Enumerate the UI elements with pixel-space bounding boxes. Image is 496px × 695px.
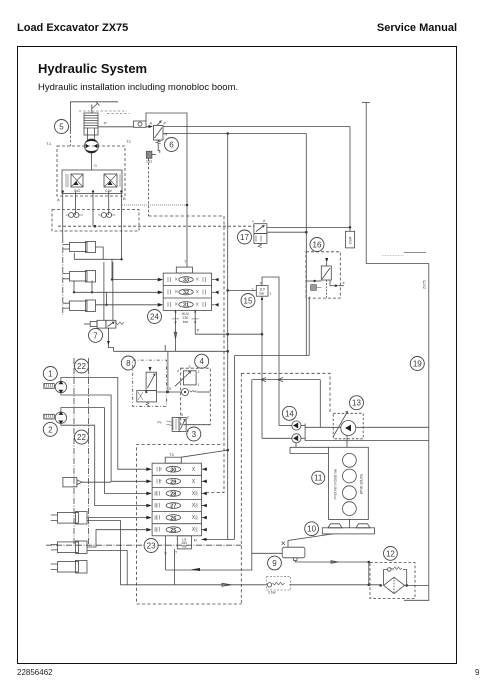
- circle 9: [268, 556, 282, 570]
- wire engine rails: [290, 443, 328, 454]
- svg-text:10: 10: [307, 525, 316, 534]
- gear pump 1: [44, 381, 67, 393]
- engine mount 10: [322, 519, 374, 533]
- pressure reducing valve 6: [149, 121, 168, 144]
- wire P T ports below block: [165, 536, 179, 585]
- circle 4: [195, 354, 209, 368]
- svg-text:300: 300: [154, 527, 158, 532]
- LS relief box: [177, 536, 197, 549]
- sections 30 to 25: [166, 466, 180, 534]
- wire right boundary feed: [362, 103, 429, 264]
- svg-text:33: 33: [183, 278, 189, 284]
- svg-text:T: T: [175, 551, 178, 555]
- svg-text:P: P: [164, 122, 167, 126]
- svg-text:13: 13: [352, 399, 361, 408]
- svg-text:19: 19: [413, 360, 422, 369]
- svg-text:B: B: [123, 196, 126, 201]
- svg-text:22: 22: [77, 433, 86, 442]
- wire tank return line: [120, 583, 380, 586]
- svg-text:300: 300: [154, 503, 158, 508]
- section 32: [168, 289, 206, 296]
- wire gallery dotted: [122, 204, 187, 206]
- svg-text:27: 27: [170, 504, 176, 510]
- swivel joint chain lines: [46, 358, 241, 545]
- HUV relief label: [172, 310, 199, 352]
- svg-text:17: 17: [240, 233, 249, 242]
- svg-text:2: 2: [48, 425, 53, 434]
- valve block 23 body: [152, 463, 201, 536]
- svg-text:1S1: 1S1: [146, 160, 152, 164]
- circle 15: [241, 294, 255, 308]
- wire valve17 top line: [267, 226, 351, 229]
- pilot gerotor pump: [85, 139, 99, 170]
- svg-text:2: 2: [198, 370, 200, 374]
- svg-text:P=63 kW n=2000 min: P=63 kW n=2000 min: [334, 468, 338, 499]
- pressure relief 4: [175, 365, 200, 387]
- block 23 section marks: [157, 467, 195, 532]
- svg-text:9: 9: [272, 559, 277, 568]
- svg-text:15: 15: [244, 297, 253, 306]
- circle 19: [410, 357, 424, 371]
- circle 10: [305, 522, 319, 536]
- svg-text:P: P: [260, 282, 263, 286]
- wire A bus: [62, 192, 64, 238]
- section 33: [168, 277, 206, 284]
- wire B drop: [121, 194, 123, 260]
- block 23 right arrows: [202, 467, 207, 531]
- circle 7: [89, 328, 103, 342]
- svg-text:bar: bar: [183, 320, 189, 324]
- circle 14: [282, 406, 296, 420]
- wire cyl feeds rows 26 25: [87, 518, 146, 547]
- filter 12: [370, 563, 429, 599]
- wire A boundary chain: [62, 237, 64, 315]
- dashed region box lower: [137, 216, 330, 604]
- circle 2: [43, 422, 57, 436]
- svg-text:300: 300: [195, 491, 199, 496]
- svg-text:T2: T2: [126, 139, 131, 144]
- wire cylinder returns to tank line: [87, 520, 127, 584]
- circle 22 upper: [75, 359, 89, 373]
- svg-text:3 bar: 3 bar: [268, 591, 277, 595]
- svg-text:INO: INO: [74, 189, 81, 193]
- circle 12: [384, 547, 398, 561]
- svg-text:T.1: T.1: [46, 141, 52, 146]
- wire valve6 P to CWF column: [163, 126, 350, 128]
- svg-text:ZX75: ZX75: [423, 280, 427, 289]
- svg-text:a: a: [343, 281, 345, 285]
- svg-text:3: 3: [181, 413, 183, 417]
- cylinder lower a: [51, 512, 87, 525]
- block 23 value labels: [154, 467, 199, 532]
- circle 11: [312, 471, 325, 484]
- CWF coupling: [346, 127, 355, 248]
- svg-text:T: T: [184, 259, 187, 264]
- wire valve17 lower line: [267, 231, 308, 234]
- svg-text:2: 2: [187, 416, 189, 420]
- solenoid valve 8: [133, 360, 167, 406]
- svg-text:T3: T3: [169, 452, 174, 457]
- circle 24: [148, 310, 162, 324]
- wire cylinder step lines: [73, 247, 123, 306]
- svg-text:+B: +B: [159, 467, 163, 471]
- svg-text:A: A: [57, 197, 60, 202]
- solenoid 1S1: [146, 143, 160, 216]
- dashed box around valve 4: [181, 368, 211, 425]
- svg-text:P: P: [197, 328, 200, 333]
- circle 13: [350, 396, 364, 410]
- svg-text:30: 30: [170, 467, 176, 473]
- variable pump 13: [333, 412, 363, 448]
- svg-text:bar: bar: [260, 291, 266, 295]
- svg-text:P: P: [104, 121, 107, 126]
- wire valve6R down column: [305, 134, 307, 282]
- svg-text:300: 300: [195, 515, 199, 520]
- svg-text:x: x: [252, 220, 254, 224]
- circle 5: [55, 120, 69, 134]
- svg-text:6: 6: [169, 141, 174, 150]
- check valve row dashed box: [52, 190, 139, 231]
- svg-text:O: O: [94, 164, 97, 168]
- wire pump1 B feed: [61, 393, 146, 482]
- wire 110bar P riser: [262, 277, 279, 426]
- svg-text:S: S: [169, 387, 172, 391]
- circle 3: [187, 427, 201, 441]
- svg-text:5: 5: [59, 123, 64, 132]
- pressure valve 110 bar: [228, 282, 272, 297]
- solenoid valve 17: [252, 219, 267, 248]
- svg-text:A: A: [150, 122, 153, 126]
- pump regulator block: [62, 170, 122, 194]
- cylinder group upper left: [63, 242, 96, 312]
- section 31: [168, 302, 206, 309]
- svg-text:CWF: CWF: [349, 236, 353, 244]
- svg-text:23: 23: [147, 542, 156, 551]
- main trunk line: [226, 134, 229, 540]
- node R line / trunk top: [226, 132, 229, 135]
- wire P line to check box: [98, 121, 150, 127]
- svg-text:+B: +B: [159, 479, 163, 483]
- node gallery: [186, 204, 189, 207]
- circle 22 lower: [75, 430, 89, 444]
- gear pump 9: [252, 378, 333, 571]
- svg-text:300: 300: [195, 503, 199, 508]
- dashed box T1 T2 pump group: [46, 139, 131, 196]
- svg-text:300: 300: [154, 491, 158, 496]
- cylinder lower b: [51, 541, 87, 554]
- block 24 right arrows: [212, 278, 219, 307]
- svg-text:A: A: [263, 219, 266, 223]
- control lever linkage: [71, 102, 130, 147]
- check valve pair 14: [262, 421, 305, 443]
- wire S line valve8 out: [157, 351, 182, 393]
- circle 23: [144, 539, 158, 553]
- solenoid valve 3: [158, 413, 190, 433]
- svg-text:11: 11: [314, 474, 323, 483]
- svg-text:1: 1: [198, 383, 200, 387]
- svg-text:32: 32: [183, 290, 189, 296]
- wire feeds into block 24: [74, 278, 163, 307]
- svg-text:300: 300: [154, 515, 158, 520]
- svg-text:BP4M 101/2/E: BP4M 101/2/E: [360, 474, 364, 495]
- wire drain rail mid: [235, 297, 310, 540]
- valve block 24 body: [163, 273, 211, 310]
- check valve with spring: [182, 389, 211, 396]
- valve 16 assembly: [306, 252, 345, 355]
- wire pump2 A feed: [61, 408, 146, 494]
- svg-text:26: 26: [170, 516, 176, 522]
- pilot control unit (accumulator stack): [84, 113, 98, 140]
- circle 17: [238, 230, 252, 244]
- svg-text:29: 29: [170, 480, 176, 486]
- svg-text:12: 12: [386, 549, 395, 558]
- svg-text:16: 16: [313, 241, 322, 250]
- svg-text:Pv: Pv: [158, 421, 162, 425]
- svg-text:31: 31: [183, 303, 189, 309]
- gear pump 2: [44, 412, 67, 424]
- T3 port box: [165, 450, 228, 463]
- wire M line: [202, 538, 235, 541]
- svg-text:1: 1: [270, 292, 272, 296]
- circle 16: [310, 238, 324, 252]
- solenoid valve 7: [84, 262, 124, 351]
- svg-text:4: 4: [177, 369, 179, 373]
- svg-text:25: 25: [170, 528, 176, 534]
- block 23 left arrows: [146, 467, 152, 531]
- wire pilot dashed to valve 17: [58, 225, 254, 228]
- cylinder lower c: [51, 561, 87, 574]
- wire boom service lines: [305, 427, 429, 440]
- check valve 3 bar: [267, 577, 291, 595]
- svg-text:140: 140: [195, 527, 199, 532]
- inline check box: [134, 121, 147, 127]
- svg-text:3: 3: [189, 365, 191, 369]
- svg-text:22: 22: [77, 362, 86, 371]
- wire valve6 R to valve16 column: [163, 133, 306, 135]
- wire ZX75 boundary line: [382, 252, 429, 600]
- circle 8: [121, 356, 135, 370]
- svg-text:M: M: [194, 539, 197, 543]
- relief valve cone: [165, 332, 177, 351]
- engine 11: [328, 447, 368, 519]
- circle 6: [165, 138, 179, 152]
- svg-text:4: 4: [199, 357, 204, 366]
- wire 110bar T drop: [261, 296, 263, 438]
- wire pump9 outlet: [295, 561, 370, 587]
- hydraulic motor small: [63, 478, 111, 487]
- wire tank rail: [114, 350, 230, 353]
- svg-text:24: 24: [150, 313, 159, 322]
- svg-text:14: 14: [285, 409, 294, 418]
- svg-text:3: 3: [192, 430, 197, 439]
- wire T return into block: [166, 568, 253, 571]
- svg-text:7: 7: [93, 331, 98, 340]
- wire pump2 B feed: [61, 423, 146, 505]
- circle 1: [43, 367, 57, 381]
- svg-text:8: 8: [126, 359, 131, 368]
- wire pump1 A feed: [61, 378, 146, 470]
- svg-text:28: 28: [170, 492, 176, 498]
- wire T return to valve block 24: [146, 113, 187, 267]
- svg-text:1: 1: [48, 370, 53, 379]
- wire P sense line: [195, 328, 263, 336]
- port labels A B: [57, 196, 126, 202]
- T port box block 24: [176, 259, 192, 273]
